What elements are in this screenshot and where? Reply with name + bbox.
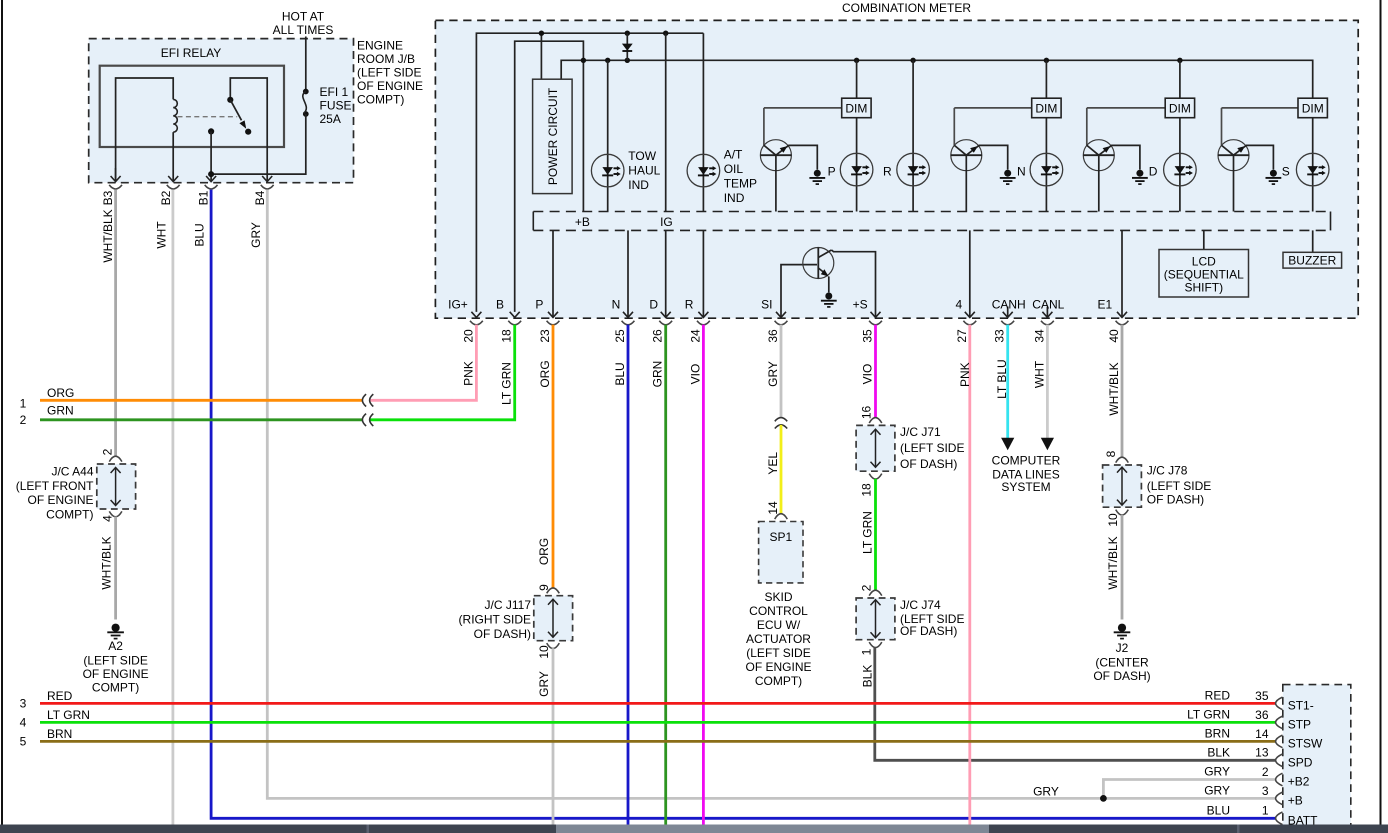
svg-text:A2: A2 xyxy=(108,639,123,653)
svg-text:OF ENGINE: OF ENGINE xyxy=(745,660,811,674)
svg-text:B3: B3 xyxy=(101,190,115,205)
svg-text:BUZZER: BUZZER xyxy=(1288,254,1336,268)
svg-text:OIL: OIL xyxy=(724,162,744,176)
svg-text:P: P xyxy=(535,298,543,312)
LED R xyxy=(897,153,930,186)
svg-text:(LEFT FRONT: (LEFT FRONT xyxy=(16,479,94,493)
wire LED P / DIM1 column xyxy=(856,60,858,211)
pin SPD xyxy=(1276,754,1283,767)
wire coil to pin B2 xyxy=(172,132,174,181)
svg-text:27: 27 xyxy=(955,329,969,343)
wire YEL to SP1 xyxy=(780,425,783,514)
svg-text:IG+: IG+ xyxy=(448,298,468,312)
DIM2 base feed wire xyxy=(954,107,1031,109)
wire LED N / DIM2 column xyxy=(1045,60,1047,211)
svg-text:(LEFT SIDE: (LEFT SIDE xyxy=(746,646,810,660)
svg-text:4: 4 xyxy=(101,515,115,522)
svg-text:S: S xyxy=(1282,164,1290,178)
wire R pin column xyxy=(702,230,704,317)
wire WHT CANL to computer data lines xyxy=(1046,325,1049,439)
svg-text:OF DASH): OF DASH) xyxy=(474,627,531,641)
ground J2 xyxy=(1114,624,1131,639)
meter pin +S xyxy=(869,312,882,325)
pin B1 xyxy=(205,176,218,189)
relay common contact node xyxy=(208,128,214,134)
J/C J74 box xyxy=(856,584,964,655)
svg-text:OF ENGINE: OF ENGINE xyxy=(83,667,149,681)
svg-text:CONTROL: CONTROL xyxy=(749,604,808,618)
svg-text:ACTUATOR: ACTUATOR xyxy=(746,632,811,646)
svg-text:D: D xyxy=(1149,164,1158,178)
fuse EFI 1 FUSE 25A xyxy=(303,85,352,126)
svg-text:IND: IND xyxy=(628,178,649,192)
svg-text:DIM: DIM xyxy=(1035,101,1057,115)
svg-text:33: 33 xyxy=(993,329,1007,343)
wire PNK pin27 down off page xyxy=(968,325,971,825)
J/C J117 box xyxy=(459,584,573,659)
LED A/T OIL TEMP IND xyxy=(687,154,720,187)
svg-text:CANL: CANL xyxy=(1032,298,1064,312)
wire line1 to power circuit xyxy=(540,33,542,79)
wire BLK J74 pin1 to SPD pin xyxy=(875,647,1276,760)
J/C A44 box xyxy=(16,448,136,522)
svg-text:LCD: LCD xyxy=(1192,254,1216,268)
meter pin IG+ xyxy=(470,312,483,325)
svg-text:R: R xyxy=(685,298,694,312)
DIM4 box xyxy=(1298,98,1327,118)
junction dots on line3 xyxy=(581,58,586,63)
meter pin R xyxy=(697,312,710,325)
COMPUTER DATA LINES SYSTEM label xyxy=(992,454,1061,495)
transistor Q3 (D) xyxy=(1083,108,1140,212)
svg-text:26: 26 xyxy=(651,329,665,343)
svg-text:SP1: SP1 xyxy=(769,530,792,544)
wire WHT/BLK E1 to J/C J78 xyxy=(1121,325,1124,458)
LED D xyxy=(1164,153,1197,186)
wire relay internal top-left xyxy=(116,78,174,181)
svg-text:BLU: BLU xyxy=(193,223,207,246)
svg-text:E1: E1 xyxy=(1098,298,1113,312)
svg-text:B2: B2 xyxy=(159,190,173,205)
svg-text:A/T: A/T xyxy=(724,148,743,162)
svg-text:P: P xyxy=(828,164,836,178)
pin BATT xyxy=(1276,812,1283,825)
ground (Q1 emitter) xyxy=(809,170,825,184)
svg-text:STSW: STSW xyxy=(1288,737,1323,751)
svg-text:LT BLU: LT BLU xyxy=(995,359,1009,399)
junction dots on line1 xyxy=(539,31,544,36)
svg-text:COMPUTER: COMPUTER xyxy=(992,454,1061,468)
svg-text:10: 10 xyxy=(537,645,551,659)
relay switch blade xyxy=(230,100,241,121)
svg-text:+B: +B xyxy=(575,215,590,229)
wire from HOT AT ALL TIMES to fuse xyxy=(305,37,307,92)
transistor Q1 (P) xyxy=(760,108,817,212)
svg-text:EFI 1: EFI 1 xyxy=(320,85,349,99)
svg-text:N: N xyxy=(1017,164,1026,178)
svg-text:LT GRN: LT GRN xyxy=(47,708,90,722)
svg-text:WHT/BLK: WHT/BLK xyxy=(101,209,115,262)
svg-text:RED: RED xyxy=(47,689,73,703)
svg-text:GRY: GRY xyxy=(1204,765,1230,779)
svg-text:COMPT): COMPT) xyxy=(755,674,802,688)
svg-text:23: 23 xyxy=(538,329,552,343)
wire GRN pin26 down off page xyxy=(664,325,667,825)
svg-text:PNK: PNK xyxy=(461,361,475,386)
svg-text:OF ENGINE: OF ENGINE xyxy=(27,493,93,507)
svg-text:OF ENGINE: OF ENGINE xyxy=(357,79,423,93)
svg-text:WHT/BLK: WHT/BLK xyxy=(1107,362,1121,415)
wire LT GRN pin18 to row2 break xyxy=(370,325,515,420)
svg-text:LT GRN: LT GRN xyxy=(500,362,514,405)
DIM3 base feed wire xyxy=(1087,107,1165,109)
SKID CONTROL ECU label xyxy=(745,590,811,688)
wire bus line2 B feed xyxy=(515,41,584,312)
SP1 skid control box xyxy=(759,514,803,583)
svg-text:IND: IND xyxy=(724,191,745,205)
relay actuation dashed link xyxy=(178,116,238,118)
wire bus line1 xyxy=(476,33,703,312)
meter pin CANH xyxy=(1001,312,1014,325)
svg-text:J/C J71: J/C J71 xyxy=(900,425,941,439)
wire LED D / DIM3 column xyxy=(1179,60,1181,211)
svg-text:ALL TIMES: ALL TIMES xyxy=(273,23,334,37)
wire LT BLU CANH to computer data lines xyxy=(1006,325,1009,439)
svg-text:GRN: GRN xyxy=(47,403,74,417)
DIM4 base feed wire xyxy=(1222,107,1299,109)
bottom scrollbar track xyxy=(0,825,1388,833)
svg-text:J/C J117: J/C J117 xyxy=(485,598,532,612)
pin B2 xyxy=(167,176,180,189)
ground (Q3 emitter) xyxy=(1132,170,1148,184)
svg-text:GRY: GRY xyxy=(1033,785,1059,799)
meter pin 4 xyxy=(963,312,976,325)
break symbol GRY/YEL xyxy=(775,418,787,429)
pin +B2 xyxy=(1276,773,1283,786)
svg-text:ENGINE: ENGINE xyxy=(357,39,403,53)
wire ORG pin23 to J/C J117 xyxy=(552,325,555,589)
svg-text:J/C J78: J/C J78 xyxy=(1147,463,1188,477)
power circuit U1 xyxy=(533,79,573,193)
svg-text:4: 4 xyxy=(956,298,963,312)
meter pin CANL xyxy=(1041,312,1054,325)
svg-text:WHT: WHT xyxy=(155,221,169,249)
wire GRY J117 pin10 down off page xyxy=(552,648,555,824)
svg-text:POWER CIRCUIT: POWER CIRCUIT xyxy=(546,87,560,185)
svg-text:4: 4 xyxy=(20,716,27,730)
svg-text:(RIGHT SIDE: (RIGHT SIDE xyxy=(459,612,531,626)
wire VIO pin24 down off page xyxy=(702,325,705,825)
svg-text:20: 20 xyxy=(461,329,475,343)
svg-text:(LEFT SIDE: (LEFT SIDE xyxy=(83,654,147,668)
wire common contact to pin B1 xyxy=(210,131,212,181)
node HOT AT ALL TIMES xyxy=(273,10,334,38)
LED N xyxy=(1030,153,1063,186)
wire 4 pin column xyxy=(969,230,971,317)
DIM3 box xyxy=(1165,98,1194,118)
svg-text:ORG: ORG xyxy=(537,538,551,565)
wire WHT/BLK A44 to ground A2 xyxy=(114,517,117,620)
svg-text:EFI RELAY: EFI RELAY xyxy=(161,46,221,60)
svg-text:B: B xyxy=(496,298,504,312)
svg-text:DIM: DIM xyxy=(1302,101,1324,115)
wire relay internal top-right xyxy=(230,78,267,181)
svg-text:36: 36 xyxy=(1255,708,1269,722)
wire WHT/BLK J78 to ground J2 xyxy=(1121,515,1124,620)
svg-text:RED: RED xyxy=(1205,689,1231,703)
svg-text:OF DASH): OF DASH) xyxy=(1147,492,1204,506)
svg-text:SKID: SKID xyxy=(764,590,792,604)
svg-text:1: 1 xyxy=(860,648,874,655)
svg-text:16: 16 xyxy=(860,406,874,420)
combination meter box xyxy=(435,20,1358,318)
break symbol row2 xyxy=(362,414,373,426)
ENGINE ROOM J/B label xyxy=(357,39,423,107)
LED P xyxy=(840,153,873,186)
wire PNK pin20 to row1 break xyxy=(370,325,476,401)
svg-text:BLK: BLK xyxy=(861,665,875,688)
svg-text:J/C A44: J/C A44 xyxy=(51,464,93,478)
pin +B xyxy=(1276,792,1283,805)
junction GRY branch xyxy=(1100,795,1107,802)
wire LED R column xyxy=(912,60,914,211)
svg-text:SPD: SPD xyxy=(1288,755,1313,769)
svg-text:25: 25 xyxy=(613,329,627,343)
ground (Q5 emitter) xyxy=(821,293,837,307)
scrollbar divider right xyxy=(1237,825,1240,833)
pin B4 xyxy=(261,176,274,189)
svg-text:14: 14 xyxy=(1255,727,1269,741)
svg-text:35: 35 xyxy=(1255,689,1269,703)
svg-text:IG: IG xyxy=(660,215,673,229)
svg-text:R: R xyxy=(883,164,892,178)
meter pin D xyxy=(659,312,672,325)
internal bus strip +B / IG xyxy=(533,212,1330,231)
wire VIO pin35 to J/C J71 xyxy=(874,325,877,418)
svg-text:GRY: GRY xyxy=(537,671,551,697)
svg-text:D: D xyxy=(649,298,658,312)
scrollbar divider left xyxy=(367,825,370,833)
svg-text:(LEFT SIDE: (LEFT SIDE xyxy=(357,66,421,80)
J/C J78 box xyxy=(1103,450,1212,526)
svg-text:COMBINATION METER: COMBINATION METER xyxy=(842,1,971,15)
wire GRY pin36 to break xyxy=(780,325,783,418)
svg-text:J/C J74: J/C J74 xyxy=(900,598,941,612)
svg-text:GRY: GRY xyxy=(1204,784,1230,798)
wire BLU from B1 to BATT pin of bottom connector xyxy=(211,190,1276,819)
svg-text:2: 2 xyxy=(1262,765,1269,779)
relay coil L1 xyxy=(173,99,177,132)
svg-text:(CENTER: (CENTER xyxy=(1095,656,1149,670)
svg-text:OF DASH): OF DASH) xyxy=(900,624,957,638)
svg-text:HAUL: HAUL xyxy=(628,163,660,177)
svg-text:CANH: CANH xyxy=(992,298,1026,312)
svg-text:8: 8 xyxy=(1104,450,1118,457)
wire IG vertical from line1 to bus strip xyxy=(665,33,667,211)
LED TOW HAUL IND xyxy=(591,154,624,187)
pin ST1- xyxy=(1276,697,1283,710)
LED S xyxy=(1296,153,1329,186)
pin STP xyxy=(1276,716,1283,729)
pin STSW xyxy=(1276,735,1283,748)
svg-text:3: 3 xyxy=(20,697,27,711)
svg-text:ORG: ORG xyxy=(538,360,552,387)
diode D1 between line1 and line3 xyxy=(622,33,633,60)
svg-text:WHT: WHT xyxy=(1032,360,1046,388)
svg-text:STP: STP xyxy=(1288,718,1311,732)
junction fuse/B1 xyxy=(208,171,214,177)
wire P pin column xyxy=(552,230,554,317)
svg-text:2: 2 xyxy=(20,413,27,427)
svg-text:5: 5 xyxy=(20,735,27,749)
svg-text:B4: B4 xyxy=(253,190,267,205)
svg-text:BRN: BRN xyxy=(1205,727,1230,741)
wire fuse to B1 column xyxy=(211,114,306,174)
svg-text:B1: B1 xyxy=(197,190,211,205)
svg-text:VIO: VIO xyxy=(688,364,702,385)
svg-text:(LEFT SIDE: (LEFT SIDE xyxy=(900,441,964,455)
svg-text:(SEQUENTIAL: (SEQUENTIAL xyxy=(1164,267,1244,281)
svg-text:2: 2 xyxy=(860,584,874,591)
DIM2 box xyxy=(1032,98,1061,118)
wire GRY from B4 to +B pin of bottom connector xyxy=(267,190,1276,799)
break symbol row1 xyxy=(362,394,373,406)
J/C J71 box xyxy=(856,406,964,497)
wire CANL stub xyxy=(1046,307,1048,318)
svg-text:WHT/BLK: WHT/BLK xyxy=(100,536,114,589)
svg-text:DIM: DIM xyxy=(845,101,867,115)
wire A/T OIL LED column xyxy=(702,33,704,211)
transistor Q5 (SI) xyxy=(781,248,876,318)
svg-text:BLK: BLK xyxy=(1207,745,1230,759)
svg-text:BLU: BLU xyxy=(613,362,627,385)
transistor Q4 (S) xyxy=(1218,108,1273,212)
wire N pin column xyxy=(627,230,629,317)
svg-text:18: 18 xyxy=(860,483,874,497)
svg-text:GRY: GRY xyxy=(766,361,780,387)
svg-text:+B2: +B2 xyxy=(1288,775,1310,789)
svg-text:(LEFT SIDE: (LEFT SIDE xyxy=(1147,479,1211,493)
svg-text:1: 1 xyxy=(20,397,27,411)
wire WHT/BLK from B3 to J/C A44 xyxy=(114,190,117,457)
svg-text:DIM: DIM xyxy=(1169,101,1191,115)
svg-text:ROOM J/B: ROOM J/B xyxy=(357,52,415,66)
wire BLU pin25 down off page xyxy=(627,325,630,825)
svg-text:YEL: YEL xyxy=(766,452,780,475)
svg-text:ORG: ORG xyxy=(47,386,74,400)
wire TOW HAUL LED column xyxy=(607,60,609,211)
svg-text:COMPT): COMPT) xyxy=(357,93,404,107)
meter pin N xyxy=(622,312,635,325)
svg-text:TEMP: TEMP xyxy=(724,177,757,191)
svg-text:COMPT): COMPT) xyxy=(46,508,93,522)
wire CANH stub xyxy=(1007,307,1009,318)
meter pin B xyxy=(508,312,521,325)
svg-text:OF DASH): OF DASH) xyxy=(900,457,957,471)
svg-text:34: 34 xyxy=(1032,329,1046,343)
svg-text:OF DASH): OF DASH) xyxy=(1093,669,1150,683)
transistor Q2 (N) xyxy=(951,108,1008,212)
relay switch contact xyxy=(245,129,251,135)
svg-text:PNK: PNK xyxy=(958,362,972,387)
meter pin SI xyxy=(775,312,788,325)
DIM1 box xyxy=(842,98,871,118)
wire D pin column xyxy=(665,230,667,317)
wire WHT from B2 down off page xyxy=(171,190,174,825)
svg-text:1: 1 xyxy=(1262,804,1269,818)
svg-text:+S: +S xyxy=(853,298,868,312)
svg-text:10: 10 xyxy=(1106,513,1120,527)
svg-text:35: 35 xyxy=(861,329,875,343)
svg-text:LT GRN: LT GRN xyxy=(861,511,875,554)
wire bus line3 xyxy=(561,60,1312,98)
wire GRY branch to +B2 pin xyxy=(1103,780,1275,799)
svg-text:COMPT): COMPT) xyxy=(92,681,139,695)
DIM1 base feed wire xyxy=(764,107,842,109)
svg-text:GRY: GRY xyxy=(249,222,263,248)
svg-text:18: 18 xyxy=(500,329,514,343)
svg-text:2: 2 xyxy=(101,448,115,455)
svg-text:ST1-: ST1- xyxy=(1288,699,1314,713)
svg-text:DATA LINES: DATA LINES xyxy=(992,467,1060,481)
svg-text:HOT AT: HOT AT xyxy=(282,10,325,24)
svg-text:14: 14 xyxy=(766,501,780,515)
svg-text:GRN: GRN xyxy=(651,361,665,388)
BUZZER box xyxy=(1283,230,1342,268)
svg-text:ECU W/: ECU W/ xyxy=(757,618,801,632)
svg-text:SI: SI xyxy=(761,298,772,312)
ground (Q4 emitter) xyxy=(1266,170,1282,184)
svg-text:TOW: TOW xyxy=(628,149,656,163)
svg-text:BRN: BRN xyxy=(47,727,72,741)
wire E1 pin column xyxy=(1121,230,1123,317)
svg-text:36: 36 xyxy=(766,329,780,343)
relay switch pivot xyxy=(227,97,233,103)
svg-text:WHT/BLK: WHT/BLK xyxy=(1106,536,1120,589)
pin B3 xyxy=(115,168,117,181)
engine room J/B box (EFI relay enclosure) xyxy=(89,39,354,183)
ground A2 xyxy=(107,624,124,639)
svg-text:40: 40 xyxy=(1107,329,1121,343)
svg-text:24: 24 xyxy=(688,329,702,343)
svg-text:SYSTEM: SYSTEM xyxy=(1001,480,1050,494)
right page border xyxy=(1380,0,1382,825)
LCD (SEQUENTIAL SHIFT) box xyxy=(1159,230,1249,297)
svg-text:BLU: BLU xyxy=(1207,803,1230,817)
ground (Q2 emitter) xyxy=(1000,170,1016,184)
svg-text:9: 9 xyxy=(537,584,551,591)
svg-text:25A: 25A xyxy=(320,112,341,126)
svg-text:J2: J2 xyxy=(1116,641,1129,655)
meter pin P xyxy=(547,312,560,325)
wire LT GRN J71 to J74 xyxy=(874,479,877,591)
meter pin E1 xyxy=(1116,312,1129,325)
svg-text:FUSE: FUSE xyxy=(320,99,352,113)
relay K1 outline xyxy=(100,66,284,147)
svg-text:SHIFT): SHIFT) xyxy=(1184,280,1223,294)
svg-text:13: 13 xyxy=(1255,746,1269,760)
svg-text:VIO: VIO xyxy=(861,364,875,385)
svg-text:3: 3 xyxy=(1262,784,1269,798)
left page border xyxy=(1,0,3,825)
svg-text:LT GRN: LT GRN xyxy=(1187,708,1230,722)
svg-text:+B: +B xyxy=(1288,794,1303,808)
bottom connector box xyxy=(1283,685,1351,827)
wire LED S / DIM4 column xyxy=(1312,98,1314,211)
bottom scrollbar thumb xyxy=(556,825,989,833)
svg-text:N: N xyxy=(612,298,621,312)
